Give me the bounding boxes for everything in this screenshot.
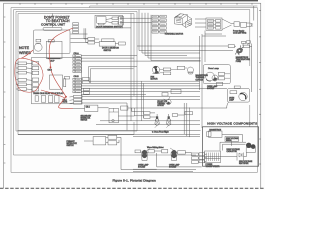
magnetron temperature fuse icon bbox=[235, 45, 243, 55]
power plug bbox=[241, 22, 254, 27]
chassis top extra line bbox=[90, 6, 258, 8]
red wire from CN-A bracket through pcb bbox=[49, 28, 73, 97]
bottom wires bbox=[133, 151, 202, 171]
wires AC box down bbox=[202, 34, 226, 36]
grn label box 2 bbox=[185, 111, 192, 114]
svg-text:CN-P: CN-P bbox=[50, 60, 55, 62]
sheet bottom edge bbox=[0, 187, 265, 189]
svg-text:CN-A: CN-A bbox=[74, 52, 80, 55]
sheet right border bbox=[259, 3, 261, 188]
oven lamp 1 assembly bbox=[203, 65, 230, 86]
grn label box bbox=[172, 114, 177, 117]
hv rectifier D1 bbox=[237, 153, 244, 161]
magnetron box bbox=[207, 129, 223, 138]
svg-text:NOTE: NOTE bbox=[19, 46, 30, 50]
relay row on pcb bottom bbox=[35, 96, 59, 103]
bottom lamp socket 1 bbox=[135, 150, 154, 161]
chassis outline rect A bbox=[11, 8, 257, 173]
wire stubs into label boxes bbox=[16, 63, 18, 89]
svg-text:CN-G: CN-G bbox=[48, 70, 53, 72]
control PCB outline bbox=[32, 58, 82, 104]
CN label box right bbox=[121, 106, 128, 110]
pcb edge connector boxes bbox=[32, 62, 39, 91]
wire lamp2 to bus bbox=[227, 102, 229, 108]
chassis outline rect C bbox=[16, 12, 137, 132]
sheet top edge bbox=[0, 1, 261, 5]
thermal cutout TC1 bbox=[188, 67, 194, 74]
bottom lamp socket 2 bbox=[162, 150, 186, 161]
wires to lamp plug labels bbox=[132, 112, 185, 117]
verticals near plugs bbox=[132, 103, 190, 137]
wires motor to AC box bbox=[195, 19, 206, 27]
svg-text:to Oven Front Right: to Oven Front Right bbox=[152, 130, 169, 133]
door sensing switch assembly bbox=[95, 15, 123, 28]
svg-text:SWITCH: SWITCH bbox=[81, 119, 88, 121]
svg-text:HIGH VOLTAGE COMPONENTS: HIGH VOLTAGE COMPONENTS bbox=[207, 121, 257, 125]
control unit bottom pin row bbox=[48, 58, 61, 60]
primary interlock switch assembly bbox=[67, 135, 117, 147]
wire label boxes column (left of pcb) bbox=[18, 62, 27, 90]
wires door switch down to interlock bbox=[53, 14, 88, 43]
high voltage box bbox=[203, 127, 259, 166]
wires right of door switch bbox=[123, 14, 132, 131]
svg-text:Oven Lamp: Oven Lamp bbox=[208, 68, 220, 70]
oven cavity outline bbox=[89, 67, 200, 122]
oven front plug P1 bbox=[155, 116, 159, 127]
oven lamp 2 assembly bbox=[227, 89, 249, 103]
svg-text:Figure 5-1. Pictorial Diagram: Figure 5-1. Pictorial Diagram bbox=[113, 179, 157, 183]
hv input label boxes bbox=[199, 153, 205, 163]
svg-text:SOCKET: SOCKET bbox=[138, 167, 146, 169]
lt-grn label box 1 bbox=[144, 112, 150, 115]
oven front plug P2 bbox=[166, 116, 170, 127]
aux label boxes right of CN strip bbox=[82, 78, 89, 95]
hv capacitor bbox=[246, 143, 256, 153]
top connector stack CN-T bbox=[152, 15, 166, 33]
red wire tail to interlock bbox=[59, 97, 74, 109]
arrows wires label->connector bbox=[27, 63, 33, 89]
red blob around wire labels bbox=[15, 58, 43, 92]
fan motor FM1 bbox=[152, 66, 159, 74]
svg-text:DOOR SENSING SWITCH: DOOR SENSING SWITCH bbox=[96, 26, 123, 28]
CN-A bracket label top right of control unit bbox=[73, 23, 79, 34]
wires control unit to switches bbox=[71, 34, 88, 43]
secondary interlock switch S2 bbox=[109, 108, 118, 123]
display unit box bbox=[46, 41, 62, 58]
buzzer inside control unit bbox=[34, 43, 42, 51]
sheet left border bbox=[4, 3, 6, 188]
chassis outline rect B bbox=[14, 10, 250, 155]
fuse label boxes bbox=[228, 45, 234, 48]
svg-text:CUTOUT: CUTOUT bbox=[157, 105, 164, 107]
svg-text:MOTOR: MOTOR bbox=[151, 79, 159, 81]
IC U1 on pcb bbox=[50, 75, 63, 89]
CN-A connector strip (right edge of pcb) bbox=[15, 6, 259, 183]
svg-text:CAPACITOR: CAPACITOR bbox=[227, 150, 238, 153]
svg-text:Wave Stirring Motor: Wave Stirring Motor bbox=[147, 146, 164, 149]
svg-text:CONTROL UNIT: CONTROL UNIT bbox=[41, 23, 65, 27]
CN-E label bbox=[48, 40, 54, 42]
CN-C junction box bbox=[85, 105, 98, 111]
control unit outer box bbox=[33, 27, 70, 53]
red dot junction 2 bbox=[65, 96, 67, 98]
turntable motor isometric bbox=[175, 14, 192, 28]
fan motor label boxes bbox=[163, 68, 171, 71]
svg-text:SWITCH: SWITCH bbox=[104, 50, 112, 52]
svg-text:SWITCH: SWITCH bbox=[67, 145, 75, 147]
long horizontal wires center bbox=[81, 56, 227, 95]
power transformer T1 bbox=[205, 151, 221, 163]
secondary interlock switch assembly bbox=[88, 38, 125, 47]
svg-text:WIRES: WIRES bbox=[226, 140, 232, 142]
svg-text:CN-B: CN-B bbox=[74, 76, 80, 78]
svg-text:TURNTABLE MOTOR: TURNTABLE MOTOR bbox=[165, 32, 184, 35]
GRY label box above lamp2 bbox=[234, 86, 240, 88]
red wire into blob bbox=[21, 50, 33, 59]
svg-text:CN-C: CN-C bbox=[86, 107, 91, 109]
high voltage wires label bbox=[225, 137, 239, 142]
red dot junction 1 bbox=[50, 66, 52, 68]
chassis outline rect D bbox=[18, 14, 134, 135]
wires to fuse assembly bbox=[137, 43, 252, 46]
vertical wire bundle center bbox=[139, 10, 151, 61]
right-side long verticals bbox=[200, 6, 254, 128]
wires door switch to connector stack bbox=[120, 18, 152, 23]
svg-text:FUSE: FUSE bbox=[236, 61, 242, 63]
CN-D label small box bbox=[36, 39, 41, 42]
svg-text:Cord 120V 60Hz: Cord 120V 60Hz bbox=[233, 33, 246, 35]
interlock stack boxes mid-left bbox=[70, 95, 83, 104]
wires from bundle right bbox=[139, 51, 233, 61]
hv internal wires bbox=[205, 135, 247, 162]
capacitor C1 bar bbox=[64, 79, 66, 87]
cord funnel bbox=[222, 19, 234, 30]
thermostat cluster mid bbox=[162, 89, 181, 104]
wire label box mid bbox=[177, 66, 185, 69]
AC input connector box bbox=[206, 18, 222, 30]
bottom right label boxes column bbox=[192, 153, 199, 163]
svg-text:RECTIFIER: RECTIFIER bbox=[239, 163, 249, 165]
svg-text:NOTE: NOTE bbox=[63, 102, 69, 104]
svg-text:CUTOUT: CUTOUT bbox=[196, 79, 205, 81]
svg-text:LAMP: LAMP bbox=[229, 98, 235, 101]
CN-W label box bbox=[65, 76, 70, 79]
lt-grn label box 2 bbox=[144, 116, 150, 119]
cord ferrite box bbox=[234, 22, 240, 27]
svg-text:TRANSFORMER: TRANSFORMER bbox=[206, 165, 221, 168]
